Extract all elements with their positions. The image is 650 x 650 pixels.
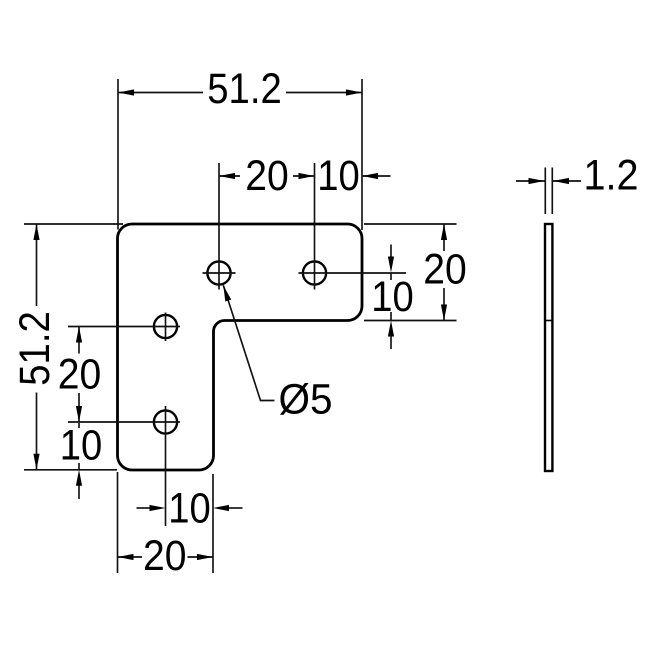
- centerline hole B vertical / extension to top 20-10 dim: [314, 163, 316, 290]
- dimension line right 10 arrow tails: [390, 245, 392, 258]
- dimension line left 10 segments and tail: [78, 423, 80, 428]
- dimension line 51.2 top right segment: [286, 92, 362, 94]
- extension line top-left corner up (51.2 top dim): [117, 79, 119, 230]
- hole C (left leg middle): [154, 315, 177, 338]
- svg-text:10: 10: [168, 485, 211, 533]
- extension line top edge to the right (right 20 dim): [364, 223, 457, 225]
- dimension line top 20 left segment: [219, 175, 240, 177]
- arrow bottom 20 left: [118, 554, 134, 560]
- arrow 1.2 left (outside, pointing right): [529, 178, 545, 184]
- svg-text:20: 20: [143, 532, 187, 580]
- dimension line top 10 tail right of plate edge: [362, 175, 391, 177]
- dimension line right 20 lower segment: [443, 288, 445, 321]
- arrow top 20 right: [299, 173, 315, 179]
- side view plate (thickness view): [545, 224, 552, 471]
- centerline hole D horizontal / extension to left dims: [68, 421, 180, 423]
- centerline hole D vertical / extension to bottom 10 dim: [165, 406, 167, 526]
- arrow top 10 right (outside, pointing left): [362, 173, 378, 179]
- leader line for hole diameter label: [223, 285, 274, 400]
- plate outline (L bracket front view): [118, 224, 363, 470]
- extension line top edge to the left (left 51.2 dim): [24, 223, 123, 225]
- centerline hole A horizontal: [203, 272, 236, 274]
- extension line left edge down (bottom 20 dim): [117, 472, 119, 573]
- svg-text:20: 20: [423, 246, 467, 294]
- extension line inner vertical edge down (bottom dims): [212, 474, 214, 573]
- dimension line bottom 20 left segment: [118, 556, 143, 558]
- svg-text:51.2: 51.2: [11, 311, 59, 386]
- hole B (top-right): [303, 261, 326, 284]
- arrow right 10 bottom (outside, pointing up): [388, 321, 394, 337]
- dimension line 51.2 top left segment: [118, 92, 203, 94]
- dimension line 1.2 right tail: [553, 180, 581, 182]
- arrow 51.2 top right: [346, 89, 362, 95]
- arrow right 20 down: [441, 305, 447, 321]
- arrow right 10 top (outside, pointing down): [388, 257, 394, 273]
- centerline hole A vertical / extension to top 20-10 dim: [218, 163, 220, 290]
- arrow top 20 left: [219, 173, 235, 179]
- arrow left 20 down: [76, 406, 82, 422]
- arrow 1.2 right (outside, pointing left): [553, 178, 569, 184]
- arrow left 51.2 down: [33, 454, 39, 470]
- arrow left 10 bottom (outside, pointing up): [76, 470, 82, 486]
- arrow right 20 up: [441, 224, 447, 240]
- dimension line left 51.2 lower segment: [36, 393, 38, 470]
- hole A (top-left of horizontal leg): [207, 261, 230, 284]
- dimension line right 20 upper segment: [443, 224, 445, 251]
- dimension line bottom 20 right segment: [188, 556, 214, 558]
- svg-text:10: 10: [371, 273, 414, 321]
- extension lines side view thickness (1.2 dim): [544, 168, 546, 215]
- centerline hole C vertical: [165, 313, 167, 342]
- arrow left 51.2 up: [33, 224, 39, 240]
- arrow left 20 up: [76, 327, 82, 343]
- svg-text:10: 10: [60, 422, 103, 470]
- side view inner edge line: [544, 320, 553, 322]
- dimension line bottom 10 arrow tails: [137, 507, 151, 509]
- centerline hole C horizontal / extension to left 20 dim: [68, 326, 180, 328]
- hole D (left leg bottom): [154, 410, 177, 433]
- arrow bottom 10 left (outside, pointing right): [150, 505, 166, 511]
- svg-text:51.2: 51.2: [207, 65, 282, 113]
- dimension line left 20 upper segment: [78, 327, 80, 354]
- svg-text:20: 20: [58, 351, 102, 399]
- extension line inner edge to the right (right 20 dim): [364, 320, 457, 322]
- extension line bottom edge to the left (left 51.2 dim): [24, 469, 117, 471]
- arrow 51.2 top left: [118, 89, 134, 95]
- dimension line top 20 right segment: [293, 175, 315, 177]
- dimension line left 51.2 upper segment: [36, 224, 38, 306]
- arrow leader to hole A: [223, 285, 231, 301]
- svg-text:10: 10: [317, 152, 360, 200]
- extension line top-right corner up (51.2 top dim): [361, 79, 363, 230]
- centerline hole B horizontal / extension to right 10 dim: [299, 272, 407, 274]
- dimension line left 20 lower segment: [78, 393, 80, 422]
- arrow bottom 10 right (outside, pointing left): [213, 505, 229, 511]
- dimension line 1.2 left tail: [516, 180, 545, 182]
- svg-text:Ø5: Ø5: [279, 376, 333, 424]
- svg-text:1.2: 1.2: [584, 152, 639, 200]
- svg-text:20: 20: [245, 152, 289, 200]
- arrow bottom 20 right: [197, 554, 213, 560]
